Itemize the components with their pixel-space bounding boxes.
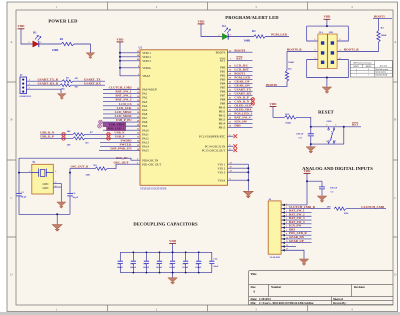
svg-text:Main Flash memory: Main Flash memory — [375, 69, 388, 71]
svg-text:J1B: J1B — [329, 31, 334, 34]
LED D2 — [222, 33, 228, 39]
svg-text:R10: R10 — [344, 212, 349, 215]
wire net BAT_SW_1 — [281, 211, 311, 213]
capacitor C7 — [159, 252, 161, 260]
svg-text:Drawn By:: Drawn By: — [333, 301, 347, 305]
wire net BAT_SW_3 — [281, 219, 311, 221]
wire net USB_VBUS to PA9 — [103, 125, 140, 127]
svg-text:USB_D_P: USB_D_P — [40, 135, 54, 139]
wire net BAT_SW_2 to PA2 — [103, 97, 140, 99]
svg-text:BOOT0: BOOT0 — [216, 50, 226, 54]
resistor R1 100R — [61, 42, 74, 45]
svg-text:USART_RX_R: USART_RX_R — [38, 82, 59, 86]
svg-text:D1: D1 — [33, 30, 37, 34]
wire R7 to PA11 — [85, 133, 140, 135]
wire crystal gnd pins — [53, 183, 61, 201]
svg-text:PA15: PA15 — [142, 149, 149, 153]
svg-text:61300511121: 61300511121 — [20, 96, 32, 98]
svg-text:100 nF: 100 nF — [169, 267, 176, 269]
capacitor C1 100nF — [321, 181, 323, 186]
pin 8 J4 — [282, 230, 285, 232]
resistor R7 — [73, 133, 85, 136]
svg-text:100 nF: 100 nF — [143, 267, 150, 269]
pin 4 J4 — [282, 215, 285, 217]
svg-text:PB15: PB15 — [219, 126, 226, 130]
ground (C1) — [317, 196, 326, 202]
svg-text:VDD: VDD — [304, 169, 312, 173]
wire VDD to jumper top — [307, 19, 349, 41]
svg-text:C:\Users\..\MICROCONTROLLER.Sc: C:\Users\..\MICROCONTROLLER.SchDoc — [259, 301, 314, 305]
wire net LCD_RST to PB1 — [228, 70, 253, 72]
svg-text:10uF: 10uF — [213, 266, 219, 268]
capacitor C4 30pF — [67, 194, 73, 196]
svg-text:VSSA: VSSA — [218, 178, 227, 182]
svg-text:BOOT0: BOOT0 — [266, 83, 277, 87]
svg-text:CLUTCH_CMD: CLUTCH_CMD — [361, 205, 385, 209]
capacitor C9 — [172, 252, 174, 260]
no-ERC marker (PA12) — [107, 136, 111, 140]
svg-text:2: 2 — [218, 35, 219, 37]
svg-text:4: 4 — [326, 125, 327, 127]
wire net USB_P_PU to PA8 — [103, 121, 140, 123]
pin 9 J4 — [282, 234, 285, 236]
svg-text:100 nF: 100 nF — [117, 267, 124, 269]
svg-text:100R: 100R — [244, 39, 251, 43]
svg-text:1: 1 — [314, 39, 315, 41]
net USB_VBUS (highlighted) — [103, 123, 126, 127]
ground (power led) — [86, 53, 95, 59]
wire LED to R1 — [39, 43, 61, 45]
svg-text:VDD: VDD — [117, 38, 125, 42]
svg-text:1: 1 — [138, 74, 139, 76]
svg-text:B: B — [394, 118, 396, 122]
wire VDD to C1 and J4 pin1 — [281, 173, 322, 205]
wire VDD to cap rail — [172, 243, 174, 252]
svg-text:C2: C2 — [117, 263, 120, 265]
wire net BAT_SW_4 to PB13 — [228, 118, 253, 120]
resistor R8 — [73, 137, 85, 140]
wire net OLED_SDA to PB11 — [228, 110, 253, 112]
svg-text:3: 3 — [55, 171, 56, 173]
pin PC 3 no-connect — [228, 145, 234, 147]
svg-text:0R: 0R — [75, 86, 78, 89]
wire jumper pin4 to BOOT1_R and R3 — [337, 42, 378, 52]
svg-text:12: 12 — [137, 96, 139, 98]
svg-text:10kR: 10kR — [381, 34, 387, 37]
svg-text:STM32F103CBT6TR: STM32F103CBT6TR — [140, 186, 167, 190]
svg-text:0: 0 — [356, 72, 357, 74]
svg-text:11: 11 — [137, 92, 139, 94]
capacitor C2 — [119, 252, 121, 260]
svg-text:DRS: DRS — [234, 123, 241, 127]
wire OSC_OUT run — [107, 164, 140, 168]
svg-text:x: x — [356, 69, 357, 71]
wire USB_D_N — [40, 133, 73, 135]
svg-text:100 nF: 100 nF — [156, 267, 163, 269]
wire VDD bus to U1 VDD pins — [120, 42, 140, 76]
wire net LCD_SCK to PA5 — [103, 109, 140, 111]
svg-text:File:: File: — [251, 301, 257, 305]
svg-text:2: 2 — [339, 39, 340, 41]
no-ERC marker (USB_D_P) — [62, 136, 66, 140]
svg-text:B: B — [10, 118, 12, 122]
capacitor C3 30pF — [16, 194, 22, 196]
pin 3 J4 — [282, 211, 285, 213]
no-ERC marker (USB_VBUS) — [98, 124, 102, 128]
svg-text:PD1-OSC OUT: PD1-OSC OUT — [142, 162, 161, 166]
svg-text:System memory: System memory — [375, 72, 386, 74]
wire net DRS — [281, 230, 311, 232]
svg-text:36K: 36K — [86, 173, 91, 176]
svg-text:RST: RST — [236, 56, 243, 60]
wire R4 to BOOT0 label — [266, 81, 287, 86]
svg-text:GND: GND — [42, 187, 48, 190]
wire BOOT0 pin — [228, 51, 253, 53]
title block — [249, 271, 393, 305]
svg-text:R1: R1 — [60, 37, 64, 41]
svg-text:42: 42 — [229, 90, 231, 92]
svg-text:22: 22 — [229, 110, 231, 112]
wire R1 to ground — [74, 44, 90, 53]
wire VDD to R11 — [273, 107, 285, 118]
svg-text:1: 1 — [286, 203, 287, 205]
wire net LCD_D/C to PB0 — [228, 66, 253, 68]
wire net BAT_SW_2 — [281, 215, 311, 217]
capacitor C13 — [198, 252, 200, 260]
wire VDD to LED D2 — [201, 24, 222, 37]
svg-text:BOOT1: BOOT1 — [374, 14, 385, 18]
svg-text:PGM_LED: PGM_LED — [271, 33, 287, 37]
wire net POS_LED_1 to PA10 — [103, 129, 140, 131]
wire D2 to R2 — [228, 36, 253, 38]
svg-text:21: 21 — [229, 106, 231, 108]
wire net POS_LED_1 to PB12 — [228, 114, 253, 116]
svg-text:SW6: SW6 — [327, 120, 333, 123]
svg-text:VDD: VDD — [18, 24, 26, 28]
wire net USART_TX to PB6 — [228, 90, 253, 92]
resistor R4 10kR (vertical) — [286, 52, 288, 71]
wire net PGM_LED to PB3 — [228, 78, 253, 80]
no-ERC marker (CAN_D_P) — [251, 98, 255, 102]
no-ERC marker (PA11) — [107, 132, 111, 136]
svg-text:2: 2 — [326, 140, 327, 142]
wire net IGN_SW to PB14 — [228, 122, 253, 124]
svg-text:C: C — [394, 196, 396, 200]
resistor R9 — [95, 167, 107, 170]
svg-text:100 nF: 100 nF — [195, 267, 202, 269]
wire J4 pin12 — [281, 245, 296, 247]
svg-text:22-28-4121: 22-28-4121 — [270, 257, 282, 259]
svg-text:VDD: VDD — [198, 19, 206, 23]
resistor R5 0R — [62, 80, 73, 83]
svg-text:J1A: J1A — [319, 31, 324, 34]
svg-text:31: 31 — [137, 129, 139, 131]
table BOOT mode selection — [350, 61, 392, 77]
wire net SWDIO to PA13 — [100, 141, 140, 143]
svg-text:DSP_PWR_EN: DSP_PWR_EN — [110, 147, 132, 151]
pin 2 J4 — [282, 207, 285, 209]
wire net LCD_MOSI to PA7 — [103, 117, 140, 119]
wire BOOT0_R to jumper pin3 — [287, 51, 318, 53]
ground (crystal gnd pins) — [57, 202, 66, 208]
svg-text:PC15-OSC32 OUT: PC15-OSC32 OUT — [202, 148, 226, 152]
wire USART_RX_R — [27, 84, 61, 86]
svg-text:BOOT0: BOOT0 — [366, 66, 372, 68]
resistor R10 200 — [334, 207, 346, 210]
svg-text:Boot mode: Boot mode — [380, 65, 388, 67]
svg-text:Number: Number — [271, 285, 282, 289]
pin 7 J4 — [282, 226, 285, 228]
capacitor C14 — [211, 252, 213, 260]
svg-text:1: 1 — [335, 140, 336, 142]
wire net DSP_PWR_EN to PA15 — [99, 150, 140, 152]
svg-text:RST: RST — [352, 122, 359, 126]
svg-text:USB_P_PU: USB_P_PU — [116, 118, 132, 122]
wire USB_D_P — [40, 137, 73, 139]
wire net BAT_SW_3 to PA3 — [103, 101, 140, 103]
svg-text:BOOT mode selection pins: BOOT mode selection pins — [353, 62, 372, 64]
svg-text:D2: D2 — [222, 24, 226, 28]
svg-text:RESET: RESET — [318, 109, 334, 114]
wire R2 to PGM_LED — [266, 36, 290, 38]
wire crystal pin1 loop — [19, 158, 70, 214]
svg-text:VDD: VDD — [270, 102, 278, 106]
op-amp U1 body (STM32F103CBT6TR) — [140, 50, 228, 186]
ground (J4) — [299, 259, 308, 265]
svg-text:2: 2 — [29, 42, 30, 44]
wire R11 to RST node — [297, 117, 362, 127]
wire decoupling top rail — [120, 251, 212, 253]
svg-text:OSC_OUT: OSC_OUT — [113, 160, 129, 164]
wire VDD to LED — [21, 29, 33, 44]
wire bottom node to ground — [56, 214, 58, 224]
ground (J7) — [58, 94, 67, 100]
svg-text:VDD: VDD — [169, 239, 177, 243]
capacitor C10 — [185, 252, 187, 260]
wire net BAT_SW_4 — [281, 223, 311, 225]
svg-text:VBAT: VBAT — [142, 74, 150, 78]
LED D1 — [33, 41, 39, 47]
svg-text:Size: Size — [251, 285, 257, 289]
pin PC 4 no-connect — [228, 149, 234, 151]
svg-text:BOOT0: BOOT0 — [234, 48, 245, 52]
wire net LCD_MISO to PA6 — [103, 113, 140, 115]
wire net GEAR_UP — [281, 242, 311, 244]
no-ERC marker (USB_P_PU) — [99, 120, 103, 124]
ground (crystal loop) — [52, 225, 62, 232]
pin 1 J4 — [282, 204, 285, 206]
svg-text:3: 3 — [314, 50, 315, 52]
pin 13 J4 — [282, 249, 285, 251]
pin 12 J4 — [282, 245, 285, 247]
svg-text:GEAR_UP: GEAR_UP — [289, 239, 304, 243]
svg-text:RST: RST — [220, 58, 226, 62]
svg-text:41: 41 — [229, 86, 231, 88]
wire net CAN_D_N to PB9 — [228, 102, 253, 104]
svg-text:OSC_OUT_R: OSC_OUT_R — [71, 165, 90, 169]
svg-text:32: 32 — [137, 133, 139, 135]
wire R6 to USART_RX — [71, 84, 105, 86]
wire net USART_RX to PB7 — [228, 94, 253, 96]
capacitor C5 — [132, 252, 134, 260]
svg-text:Revision: Revision — [354, 285, 365, 289]
wire net CLUTCH_CMD_R — [281, 208, 330, 210]
svg-text:U1: U1 — [139, 47, 143, 50]
jumper J1A J1B body — [318, 34, 327, 68]
svg-text:Title: Title — [251, 272, 258, 276]
wire J7 pin3 to ground — [27, 89, 62, 93]
wire C8 node to ground — [310, 144, 312, 147]
junction dots VDD bus — [119, 52, 121, 54]
svg-text:VDDA: VDDA — [142, 66, 151, 70]
no-ERC marker (USB_D_N) — [62, 132, 66, 136]
svg-text:GND: GND — [42, 183, 48, 186]
pin 11 J4 — [282, 242, 285, 244]
ground (decoupling) — [168, 278, 177, 284]
wire USART_TX_R — [27, 80, 63, 82]
wire net BOOT1 to PB2 — [228, 74, 253, 76]
svg-text:BOOT1_R: BOOT1_R — [344, 47, 359, 51]
wire R3 to BOOT1 — [373, 18, 392, 30]
svg-text:100R: 100R — [52, 48, 59, 52]
svg-text:PROGRAM/ALERT LED: PROGRAM/ALERT LED — [225, 15, 279, 20]
wire R9 to crystal — [70, 169, 95, 173]
wire VSS bus to ground — [228, 164, 249, 191]
svg-text:2: 2 — [229, 135, 230, 137]
wire NRST pin — [228, 59, 253, 61]
svg-text:100 nF: 100 nF — [182, 267, 189, 269]
svg-text:30 pF: 30 pF — [72, 196, 78, 199]
svg-text:10kR: 10kR — [288, 61, 294, 64]
ground (U1 VSS) — [243, 191, 253, 198]
resistor R3 10kR (vertical) — [377, 31, 380, 43]
wire bottom rail to ground — [172, 273, 174, 278]
wire decoupling bottom rail — [120, 272, 212, 274]
ground (reset) — [306, 147, 315, 153]
svg-text:100 nF: 100 nF — [296, 133, 304, 136]
wire net DRS to PB15 — [228, 126, 253, 128]
wire R10 to CLUTCH_CMD — [346, 208, 386, 210]
svg-text:3: 3 — [335, 125, 336, 127]
svg-text:PC13-TAMPER-RTC: PC13-TAMPER-RTC — [199, 134, 225, 138]
wire net BAT_SW_1 to PA1 — [103, 93, 140, 95]
net POS_LED_1 (highlighted) — [107, 127, 126, 131]
svg-text:100 nF: 100 nF — [130, 267, 137, 269]
wire net CLUTCH_CMD to PA0 — [103, 89, 140, 91]
svg-text:R2: R2 — [252, 29, 256, 33]
wire net GEAR_UP to PB4 — [228, 82, 253, 84]
svg-text:1: 1 — [356, 74, 357, 76]
svg-text:VSS 3: VSS 3 — [218, 170, 226, 174]
capacitor C6 — [145, 252, 147, 260]
wire jumper bottom loop — [307, 60, 349, 87]
wire net OLED_SCK to PB10 — [228, 106, 253, 108]
svg-text:VDD 3: VDD 3 — [142, 59, 151, 63]
resistor R11 10kR — [285, 116, 297, 119]
pin PC 2 no-connect — [228, 135, 234, 137]
resistor R2 100R — [254, 35, 266, 38]
svg-text:BOOT1: BOOT1 — [354, 66, 360, 68]
wire net CAN_D_P to PB8 — [228, 98, 253, 100]
wire net LCD_CS to PA4 — [103, 105, 140, 107]
capacitor C8 100nF — [310, 127, 312, 134]
wire OSC_IN run — [19, 158, 140, 160]
svg-text:C: C — [10, 196, 12, 200]
pin 10 J4 — [282, 238, 285, 240]
wire R5 to USART_TX — [73, 80, 105, 82]
svg-text:USART_RX: USART_RX — [84, 82, 102, 86]
svg-text:VDD: VDD — [323, 15, 331, 19]
wire net GEAR_DN to PB5 — [228, 86, 253, 88]
ground (boot jumper) — [322, 87, 331, 93]
wire net GEAR_DN — [281, 238, 311, 240]
svg-text:30 pF: 30 pF — [21, 196, 27, 199]
svg-text:100 nF: 100 nF — [330, 186, 338, 189]
wire J4 pin13 to ground — [281, 250, 304, 259]
svg-text:DECOUPLING CAPACITORS: DECOUPLING CAPACITORS — [133, 221, 198, 226]
wire switch bottom rail — [311, 127, 344, 144]
svg-text:0R: 0R — [75, 77, 78, 80]
pin 6 J4 — [282, 223, 285, 225]
wire net SWCLK to PA14 — [100, 145, 140, 147]
wire R8 to PA12 — [85, 137, 140, 139]
wire net IGN_SW — [281, 227, 311, 229]
svg-text:ANALOG AND DIGITAL INPUTS: ANALOG AND DIGITAL INPUTS — [302, 166, 373, 171]
svg-text:BOOT0_R: BOOT0_R — [287, 48, 302, 52]
resistor R6 0R — [60, 84, 71, 87]
pin 5 J4 — [282, 219, 285, 221]
no-ERC marker (CAN_D_N) — [251, 102, 255, 106]
wire net POS_LED_R — [281, 234, 311, 236]
svg-text:10kR: 10kR — [285, 121, 291, 124]
svg-text:POWER LED: POWER LED — [48, 19, 78, 24]
